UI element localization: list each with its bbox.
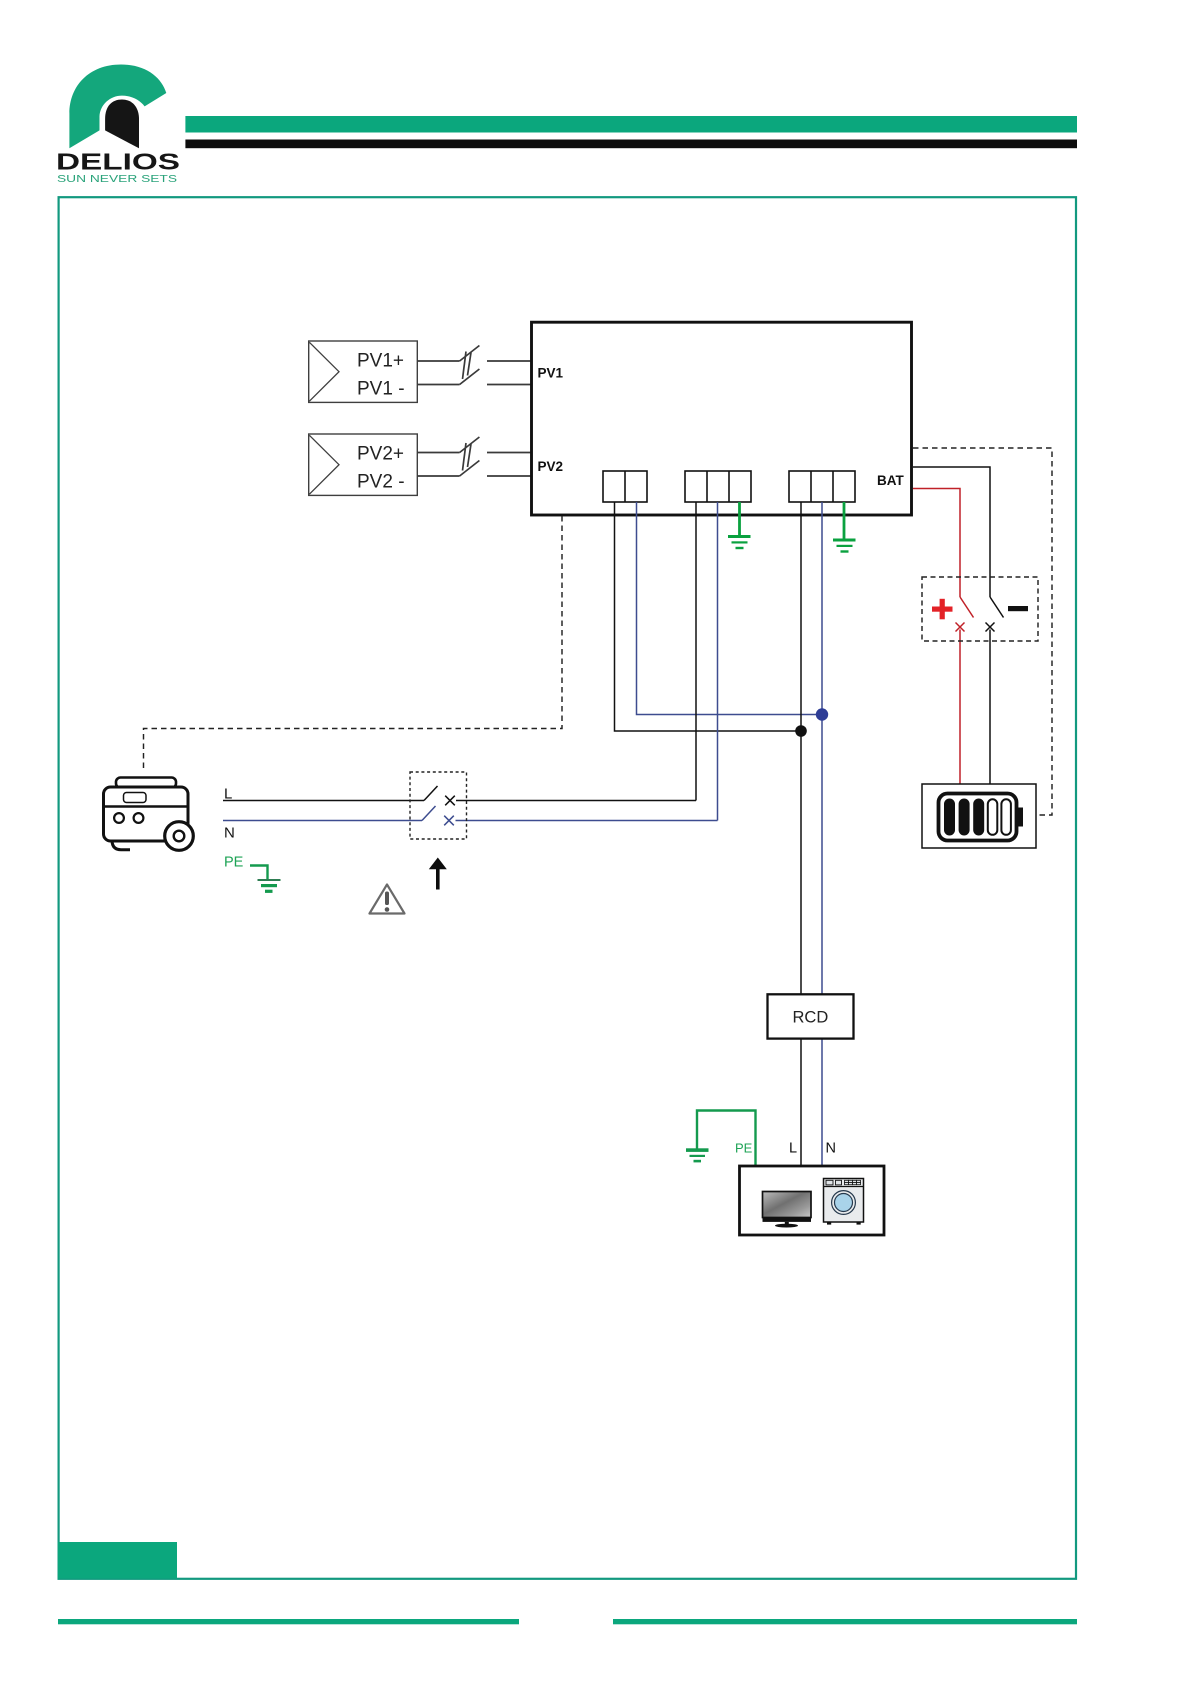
warning triangle [370, 885, 405, 914]
header green bar [185, 116, 1077, 133]
svg-text:PV1: PV1 [538, 366, 564, 381]
TV icon [763, 1192, 812, 1228]
load box [740, 1166, 885, 1235]
header black bar [185, 140, 1077, 149]
ground symbol under TB2 [728, 535, 751, 549]
breaker plus label [932, 599, 953, 620]
wire TB2 N blue [717, 502, 719, 821]
wire TB1 L black [615, 502, 802, 731]
wire PV2- with MC4 connector [417, 461, 531, 477]
svg-text:DELIOS: DELIOS [56, 149, 180, 175]
PV array 1 box [309, 341, 418, 402]
dashed link inverter to battery [913, 448, 1052, 815]
wire TB2 L black [695, 502, 697, 801]
logo tagline SUN NEVER SETS [57, 174, 177, 185]
logo mark black arch [105, 100, 139, 149]
wire generator N with switch [223, 806, 718, 825]
svg-text:PV2 -: PV2 - [357, 472, 405, 493]
battery box [922, 784, 1036, 848]
svg-text:N: N [826, 1141, 836, 1157]
svg-text:SUN NEVER SETS: SUN NEVER SETS [57, 174, 177, 185]
wire generator L with switch [223, 786, 696, 805]
terminal block TB1 [603, 471, 647, 502]
svg-text:PV1 -: PV1 - [357, 379, 405, 400]
inverter box [532, 322, 912, 515]
RCD box [768, 994, 854, 1038]
washing machine icon [824, 1179, 864, 1225]
footer green block [58, 1542, 177, 1579]
terminal block TB3 [789, 471, 855, 502]
breaker minus label [1008, 606, 1028, 611]
battery icon [939, 794, 1024, 841]
battery breaker dashed box [922, 577, 1038, 641]
generator switch dotted box [410, 772, 467, 839]
svg-text:N: N [224, 825, 235, 842]
wire BAT minus black [913, 467, 1004, 784]
junction node N blue dot [816, 708, 828, 720]
terminal block TB2 [685, 471, 751, 502]
junction node L black dot [795, 725, 807, 737]
svg-text:PV1+: PV1+ [357, 351, 404, 372]
svg-text:L: L [789, 1141, 797, 1157]
PV array 2 box [309, 434, 418, 495]
wire TB2 ground green [738, 502, 741, 536]
PE generator ground [250, 866, 281, 893]
ground symbol under TB3 [833, 539, 856, 553]
wire PV2+ with MC4 connector [417, 437, 531, 471]
svg-text:PV2+: PV2+ [357, 444, 404, 465]
svg-text:RCD: RCD [793, 1009, 829, 1027]
wire PV1+ with MC4 connector [417, 346, 531, 380]
up arrow annotation [429, 858, 447, 890]
svg-text:PV2: PV2 [538, 459, 564, 474]
dashed link inverter to generator [144, 516, 563, 771]
wire BAT plus red [913, 489, 974, 785]
load PE ground [686, 1111, 756, 1166]
wire TB3 ground green [843, 502, 846, 540]
logo mark green arc [69, 65, 166, 149]
wire TB3 N blue [821, 502, 823, 1166]
wire TB1 N blue [637, 502, 823, 715]
svg-text:PE: PE [735, 1141, 753, 1156]
wire TB3 L black [800, 502, 802, 1166]
logo wordmark DELIOS [56, 149, 180, 175]
footer rule left [58, 1619, 519, 1624]
generator icon [104, 778, 194, 851]
svg-text:BAT: BAT [877, 473, 904, 488]
footer rule right [613, 1619, 1077, 1624]
svg-text:PE: PE [224, 855, 244, 871]
wire PV1- with MC4 connector [417, 369, 531, 385]
